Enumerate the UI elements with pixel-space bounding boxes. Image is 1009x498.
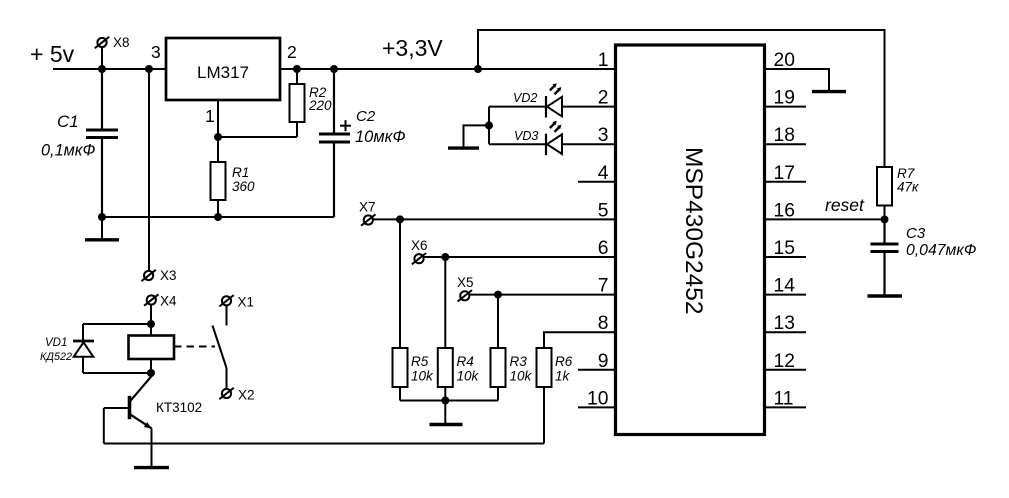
- capacitor C2 polarized: [319, 69, 406, 217]
- resistor R3: [491, 348, 533, 387]
- svg-text:360: 360: [232, 179, 255, 194]
- ground at pin 20: [812, 90, 846, 93]
- node junction resistor rail: [441, 397, 449, 405]
- wire pin 3 to VD3: [489, 143, 616, 145]
- wire dashed relay to switch: [174, 346, 215, 348]
- svg-text:10k: 10k: [510, 369, 533, 384]
- svg-text:220: 220: [308, 98, 332, 113]
- svg-text:X6: X6: [411, 238, 428, 253]
- wire top rail to reset pullup: [478, 30, 885, 167]
- ground below C1: [85, 238, 119, 241]
- svg-text:R3: R3: [510, 354, 528, 369]
- wire pin 9 stub: [578, 369, 616, 371]
- svg-text:X1: X1: [238, 295, 255, 310]
- svg-text:16: 16: [774, 200, 795, 221]
- svg-text:2: 2: [287, 42, 297, 62]
- PART2: mcu: [474, 30, 885, 435]
- svg-text:X5: X5: [457, 275, 474, 290]
- resistor R2: [290, 69, 333, 137]
- led VD3: [514, 121, 562, 155]
- wire pin 18 stub: [765, 143, 807, 145]
- wire pin 8 stub to R6: [544, 332, 616, 348]
- svg-text:20: 20: [774, 50, 795, 71]
- wire relay/diode top: [83, 323, 151, 325]
- svg-text:10k: 10k: [411, 369, 434, 384]
- svg-text:8: 8: [598, 313, 609, 334]
- svg-text:11: 11: [774, 388, 794, 409]
- wire pin 12 stub: [765, 369, 807, 371]
- relay coil K1: [129, 324, 175, 373]
- ground below transistor: [134, 466, 169, 469]
- PART3: leds and resistor network: [104, 83, 616, 443]
- svg-text:18: 18: [774, 125, 795, 146]
- svg-text:3: 3: [151, 42, 161, 62]
- node junction relay top: [147, 320, 155, 328]
- resistor R7: [877, 166, 919, 219]
- svg-text:1: 1: [205, 106, 215, 126]
- ground for leds: [448, 146, 479, 149]
- node junction X6/R4: [441, 253, 449, 261]
- wire R4 bottom: [444, 387, 446, 401]
- svg-text:3: 3: [598, 125, 609, 146]
- svg-text:X4: X4: [160, 294, 177, 309]
- wire R6 bottom to base wire: [543, 387, 545, 444]
- wire +5v rail: [53, 68, 166, 70]
- svg-text:10мкФ: 10мкФ: [355, 128, 406, 146]
- svg-text:LM317: LM317: [197, 63, 249, 82]
- wire C1 to ground: [101, 217, 103, 239]
- svg-text:10: 10: [587, 388, 608, 409]
- svg-text:14: 14: [774, 276, 796, 297]
- node junction X8/rail: [98, 65, 106, 73]
- svg-text:13: 13: [774, 313, 795, 334]
- svg-text:R4: R4: [457, 354, 474, 369]
- node junction top rail / +3.3V rail: [474, 65, 482, 73]
- svg-text:VD3: VD3: [514, 129, 538, 143]
- wire led cathodes vertical: [488, 107, 490, 145]
- svg-text:X8: X8: [113, 35, 130, 50]
- connector X5: [457, 275, 474, 302]
- ground below resistor network: [430, 423, 463, 426]
- wire pin 4 stub: [578, 181, 616, 183]
- wire R5 top: [399, 219, 401, 348]
- wire junction to ground: [444, 401, 446, 424]
- PART4: relay and transistor: [40, 294, 255, 468]
- led VD2: [513, 83, 562, 117]
- node junction C2/+3.3V rail: [330, 65, 338, 73]
- svg-text:17: 17: [774, 163, 795, 184]
- wire X8 to rail: [101, 47, 103, 69]
- regulator U LM317: [166, 38, 280, 100]
- svg-text:9: 9: [598, 351, 609, 372]
- svg-text:0,047мкФ: 0,047мкФ: [906, 242, 976, 259]
- wire resistor common rail: [400, 400, 498, 402]
- IC U1 MSP430G2452: [616, 45, 765, 435]
- connector X1: [219, 295, 254, 310]
- svg-text:VD1: VD1: [45, 337, 67, 349]
- diode VD1: [40, 337, 94, 373]
- resistor R5: [393, 348, 435, 387]
- wire X3 vertical: [148, 69, 150, 271]
- connector X8: [95, 35, 130, 50]
- svg-text:КТ3102: КТ3102: [156, 400, 202, 415]
- svg-text:47к: 47к: [897, 180, 919, 195]
- svg-text:R5: R5: [411, 354, 429, 369]
- wire pin 14 stub: [765, 294, 807, 296]
- wire R5 bottom: [399, 387, 401, 401]
- wire pin 16 reset: [765, 218, 885, 220]
- svg-text:1k: 1k: [555, 369, 571, 384]
- svg-text:C1: C1: [57, 112, 79, 131]
- wire pin 10 stub: [578, 406, 616, 408]
- connector X6: [411, 238, 428, 264]
- svg-text:R1: R1: [232, 165, 249, 180]
- wire relay/diode bottom: [83, 372, 151, 374]
- svg-text:R6: R6: [555, 354, 573, 369]
- svg-text:КД522: КД522: [40, 351, 72, 363]
- svg-text:MSP430G2452: MSP430G2452: [680, 147, 707, 315]
- svg-text:6: 6: [598, 238, 609, 259]
- wire X5 to pin 7: [469, 294, 615, 296]
- svg-text:C3: C3: [906, 225, 926, 242]
- wire +3.3V rail: [280, 68, 616, 70]
- capacitor C1: [41, 69, 118, 217]
- svg-text:7: 7: [598, 276, 609, 297]
- svg-text:+3,3V: +3,3V: [382, 35, 443, 61]
- wire pin 13 stub: [765, 331, 807, 333]
- svg-text:+ 5v: + 5v: [30, 41, 75, 67]
- wire diode branch left: [82, 324, 84, 341]
- wire pin 17 stub: [765, 181, 807, 183]
- wire emitter down: [151, 428, 153, 466]
- PART1: power supply: [30, 35, 616, 283]
- connector X4: [144, 294, 177, 309]
- wire X7 to pin 5: [373, 218, 616, 220]
- wire LM317 pin1 down: [217, 100, 219, 137]
- svg-text:2: 2: [598, 88, 609, 109]
- svg-text:12: 12: [774, 351, 795, 372]
- node junction relay bottom: [147, 369, 155, 377]
- node junction R1/bottom rail: [214, 213, 222, 221]
- node junction R2/+3.3V rail: [293, 65, 301, 73]
- node junction C1/bottom rail: [98, 213, 106, 221]
- wire R4 top: [444, 257, 446, 348]
- resistor R4: [438, 348, 480, 387]
- wire bottom rail: [102, 216, 334, 218]
- wire pin 2 to VD2: [489, 106, 616, 108]
- wire pin 15 stub: [765, 256, 807, 258]
- svg-text:15: 15: [774, 238, 795, 259]
- svg-text:VD2: VD2: [513, 91, 537, 105]
- svg-text:10k: 10k: [457, 369, 480, 384]
- wire pin 20 to ground: [765, 69, 830, 90]
- wire R3 bottom: [497, 387, 499, 401]
- node junction X7/R5: [396, 215, 404, 223]
- svg-text:0,1мкФ: 0,1мкФ: [41, 142, 95, 160]
- node junction pin1/R1: [214, 133, 222, 141]
- node junction X5/R3: [494, 291, 502, 299]
- svg-text:5: 5: [598, 200, 609, 221]
- wire X1 to switch contact: [226, 305, 228, 325]
- wire switch to X2: [226, 368, 228, 389]
- svg-text:19: 19: [774, 88, 795, 109]
- resistor R6: [537, 348, 573, 387]
- wire pin 19 stub: [765, 106, 807, 108]
- ground below C3: [868, 294, 903, 297]
- PART5: right side: [765, 166, 977, 296]
- svg-text:1: 1: [598, 50, 609, 71]
- svg-text:reset: reset: [825, 195, 865, 215]
- wire R3 top: [497, 295, 499, 348]
- svg-text:X2: X2: [238, 388, 255, 403]
- node junction reset/R7/C3: [881, 215, 889, 223]
- transistor Q1 KT3102: [104, 373, 202, 428]
- wire pin 11 stub: [765, 406, 807, 408]
- wire led junction to ground: [464, 125, 490, 146]
- wire base loop down: [103, 408, 105, 444]
- node junction led cathodes: [485, 121, 493, 129]
- wire long bottom to transistor base: [104, 443, 544, 445]
- wire X6 to pin 6: [423, 256, 615, 258]
- svg-text:4: 4: [598, 163, 609, 184]
- switch blade: [213, 326, 227, 369]
- resistor R1: [211, 137, 256, 217]
- connector X7: [359, 200, 376, 226]
- svg-text:C2: C2: [356, 108, 376, 125]
- svg-text:X3: X3: [160, 268, 177, 283]
- wire X4 down: [150, 304, 152, 324]
- connector X2: [219, 388, 254, 403]
- node junction X3/rail: [145, 65, 153, 73]
- svg-text:X7: X7: [359, 200, 376, 215]
- connector X3: [141, 268, 176, 283]
- capacitor C3: [871, 219, 977, 294]
- wire pin1 junction to R2 bottom: [218, 136, 297, 138]
